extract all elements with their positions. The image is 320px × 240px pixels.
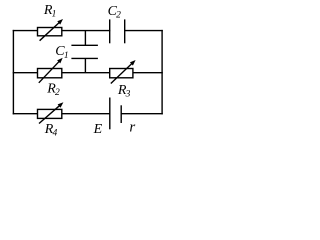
label r (internal resistance) bbox=[129, 119, 135, 135]
resistor R4 wiper arrow bbox=[39, 102, 63, 123]
resistor R1 (variable) box bbox=[38, 28, 62, 36]
battery E long (positive) plate bbox=[109, 98, 111, 130]
wire C1 bottom lead bbox=[84, 58, 86, 72]
wire top rail right segment bbox=[125, 30, 163, 32]
wire C1 top lead bbox=[84, 31, 86, 46]
label R2 bbox=[46, 82, 60, 99]
label R4 bbox=[44, 122, 58, 139]
wire middle rail left segment bbox=[13, 72, 38, 74]
label E bbox=[93, 122, 103, 137]
capacitor C1 bottom plate bbox=[71, 57, 98, 59]
label R1 bbox=[43, 3, 57, 20]
label R3 bbox=[117, 83, 131, 100]
label C1 bbox=[55, 44, 68, 61]
label C2 bbox=[108, 4, 122, 21]
battery E short (negative) plate bbox=[120, 105, 122, 123]
wire right rail bbox=[161, 30, 163, 115]
wire top rail middle segment bbox=[62, 30, 111, 32]
resistor R2 (variable) box bbox=[38, 69, 62, 78]
wire bottom rail left segment bbox=[13, 113, 38, 115]
resistor R3 (variable) box bbox=[110, 69, 133, 78]
capacitor C2 left plate bbox=[109, 19, 111, 43]
wire top rail left segment bbox=[13, 30, 38, 32]
svg-text:E: E bbox=[93, 122, 103, 137]
wire left rail bbox=[12, 30, 14, 115]
svg-text:C1: C1 bbox=[55, 44, 68, 61]
svg-text:r: r bbox=[129, 119, 135, 135]
svg-text:R4: R4 bbox=[44, 122, 58, 139]
svg-text:R1: R1 bbox=[43, 3, 57, 20]
svg-text:C2: C2 bbox=[108, 4, 122, 21]
resistor R1 wiper arrow bbox=[40, 19, 63, 41]
resistor R4 (variable) box bbox=[38, 109, 62, 118]
capacitor C2 right plate bbox=[124, 19, 126, 43]
wire middle rail middle segment bbox=[62, 72, 110, 74]
wire bottom rail right segment bbox=[121, 113, 163, 115]
svg-text:R2: R2 bbox=[46, 82, 60, 99]
capacitor C1 top plate bbox=[71, 44, 98, 46]
resistor R3 wiper arrow bbox=[111, 60, 136, 84]
svg-text:R3: R3 bbox=[117, 83, 131, 100]
wire bottom rail middle segment bbox=[62, 113, 110, 115]
resistor R2 wiper arrow bbox=[39, 58, 63, 83]
wire middle rail right segment bbox=[133, 72, 163, 74]
